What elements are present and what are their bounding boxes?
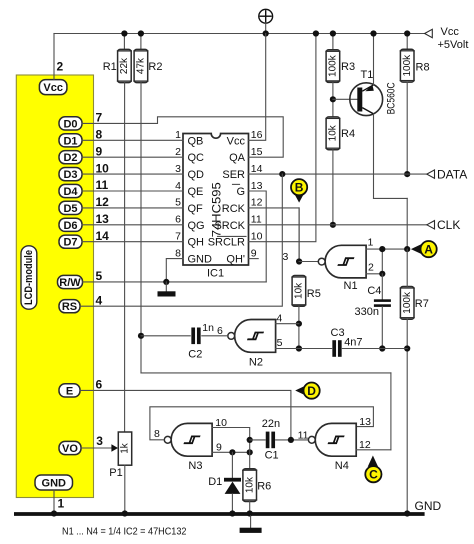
svg-text:3: 3 [282,251,288,263]
wire N2 inputs to C3 [299,348,332,350]
resistor R3 [325,50,340,83]
svg-text:8: 8 [96,128,103,142]
LCD pin VO capsule [59,441,81,455]
wire D1 to IC pin 1 [82,139,183,141]
junction LCD GND to ground rail [51,510,57,516]
N2 pin 6 output wire [202,335,228,337]
wire D7 to IC pin 7 [82,241,183,243]
svg-text:4: 4 [96,293,103,307]
svg-text:QC: QC [188,152,205,164]
wire R1 to P1 top [124,83,126,432]
junction C1 left [247,437,253,443]
wire IC pin 12 RCK to node B [249,208,300,262]
wire D6 to IC pin 6 [82,224,183,226]
svg-text:1: 1 [58,497,65,511]
svg-text:R5: R5 [307,288,321,300]
svg-text:C3: C3 [331,327,345,339]
svg-text:330n: 330n [355,306,379,318]
resistor R5 [291,276,306,307]
svg-text:GND: GND [42,478,67,490]
Vcc supply symbol circle-plus [259,9,273,33]
svg-text:D2: D2 [63,152,77,164]
svg-text:R7: R7 [415,298,429,310]
ground symbol at rail [240,516,262,533]
wire N3 pin9 to R6 [249,452,251,468]
svg-text:16: 16 [251,129,263,141]
wire T1 collector jog [374,197,408,199]
svg-text:5: 5 [96,269,103,283]
svg-text:5: 5 [277,337,283,349]
junction R4/CLK [330,222,336,228]
svg-text:C: C [369,468,378,482]
N3 pin 10 wire [212,428,250,440]
svg-text:12: 12 [359,439,371,451]
svg-text:12: 12 [251,197,263,209]
resistor R4 [325,117,340,150]
svg-text:100k: 100k [328,54,339,77]
LCD pin E capsule [59,384,80,398]
svg-text:N4: N4 [335,460,349,472]
svg-text:14: 14 [96,229,110,243]
svg-text:47k: 47k [136,57,147,74]
LCD pin D0 capsule [59,117,82,131]
junction rail/R8 [404,30,410,36]
svg-text:B: B [295,181,304,195]
svg-text:D1: D1 [63,135,77,147]
DATA terminal arrow [427,170,435,178]
nand gate N4 [308,423,356,456]
svg-text:10: 10 [96,161,110,175]
N1 pin 2 wire [366,273,382,275]
junction rail / supply symbol [263,30,269,36]
wire IC pin 11 SRCK to CLK [249,224,427,226]
svg-text:SRCLR: SRCLR [208,237,245,249]
svg-text:7: 7 [96,111,103,125]
wire N3 pin9 to D1 [231,452,233,478]
VO wiper arrow into P1 [111,444,118,451]
wire rail to R3 [332,34,334,50]
svg-text:7: 7 [175,231,181,243]
svg-text:N1 ... N4 = 1/4 IC2 = 47HC132: N1 ... N4 = 1/4 IC2 = 47HC132 [62,525,187,537]
Vcc +5V power rail [54,33,425,35]
wire C1 left lead [250,439,266,441]
wire T1 collector down [373,114,375,198]
junction R2 line / C2 wire [138,333,144,339]
svg-text:N2: N2 [249,357,263,369]
nand gate N3 [164,423,212,456]
junction R3/R4/T1 base [330,96,336,102]
svg-text:GND: GND [415,499,442,513]
svg-text:11: 11 [298,429,309,441]
junction R7 line / C3 row [404,345,410,351]
svg-text:3: 3 [96,434,103,448]
wire C4 bottom to C3 row [381,307,383,349]
svg-text:11: 11 [251,214,262,226]
wire net C horizontal run [141,372,391,374]
svg-text:6: 6 [217,325,223,337]
LCD pin RS capsule [59,300,80,314]
wire D2 to IC pin 2 [82,156,183,158]
potentiometer P1 [118,432,131,465]
svg-text:R3: R3 [341,61,355,73]
svg-text:D1: D1 [208,476,222,488]
svg-text:R/W: R/W [59,277,81,289]
capacitor C4 [374,299,391,307]
wire IC pin 14 SER to DATA [249,173,427,175]
svg-text:4: 4 [175,180,181,192]
svg-text:8: 8 [154,428,160,440]
svg-text:13: 13 [96,212,110,226]
svg-text:100k: 100k [402,54,413,77]
svg-text:2: 2 [175,146,181,158]
wire C4 top [381,274,383,300]
wire LCD RS row to SER riser [80,174,282,306]
svg-text:2: 2 [368,262,374,274]
IC1 74HC595 body [183,134,249,266]
svg-text:1: 1 [175,129,181,141]
svg-text:8: 8 [175,247,181,259]
junction D1 / ground rail [229,510,235,516]
ground rail [14,512,425,516]
junction N1 pin2 / C4 column [379,271,385,277]
junction N1 pin1 / C4 column [379,246,385,252]
svg-text:1k: 1k [120,442,131,454]
wire T1 base [333,98,358,100]
svg-text:R2: R2 [148,61,162,73]
wire R4 to CLK line [332,150,334,225]
svg-text:2: 2 [57,60,64,74]
wire R6 to ground rail [249,502,251,513]
resistor R7 [400,287,415,320]
svg-text:N1: N1 [344,280,358,292]
svg-text:3: 3 [175,163,181,175]
svg-text:QG: QG [188,220,205,232]
LCD module body [16,75,93,498]
LCD pin GND capsule [35,475,73,490]
junction rail/R1 [121,30,127,36]
svg-text:VO: VO [62,443,78,455]
svg-text:QB: QB [188,135,204,147]
svg-text:6: 6 [96,378,103,392]
capacitor C3 [332,340,341,357]
svg-text:DATA: DATA [437,168,467,182]
LCD pin Vcc wire (pin 2) [53,34,55,80]
wire LCD VO row [81,447,112,449]
wire tying N1 pins 1-2 [381,249,383,274]
wire R8 to DATA line [406,82,408,174]
resistor R1 [117,49,132,82]
svg-text:C4: C4 [367,285,381,297]
svg-text:R4: R4 [341,128,355,140]
wire N1 output [299,261,319,263]
wire IC pin 9 QH' stub [249,258,259,260]
svg-text:CLK: CLK [437,218,460,232]
wire R5 to N2 inputs [298,306,300,348]
wire D4 to IC pin 4 [82,190,183,192]
resistor R6 [242,469,257,502]
svg-text:T1: T1 [361,69,374,81]
capacitor C2 [191,328,200,345]
nand gate N2 [228,320,276,353]
LCD pin GND wire (pin 1) [53,490,55,512]
svg-text:BC560C: BC560C [385,82,397,114]
wire R7 to ground rail [406,319,408,512]
svg-text:Vcc: Vcc [441,26,460,38]
wire net C down to N4 pin 12 [390,373,392,450]
wire C2 left to R2 line [141,335,190,337]
wire rail to R8 [406,34,408,50]
wire collector to node A [406,198,408,249]
LCD pin D6 capsule [59,218,82,232]
junction C4/C3 row [379,345,385,351]
svg-text:12: 12 [96,195,110,209]
capacitor C1 [266,432,275,449]
N1 pin 1 wire [366,248,407,250]
junction pin9 / R6 [247,449,253,455]
svg-text:E: E [66,385,73,397]
transistor T1 BC560C [350,83,383,116]
svg-text:22n: 22n [262,418,280,430]
junction N1 output / R5 [296,258,302,264]
junction R5 line / N2 pin 4 [296,321,302,327]
svg-text:D0: D0 [63,118,77,130]
wire pin10 riser to pin9 row [249,440,251,452]
svg-text:R1: R1 [103,61,117,73]
wire P1 to ground rail [124,465,126,512]
svg-text:13: 13 [359,416,371,428]
N2 pin 5 wire [276,348,299,350]
svg-text:QE: QE [188,186,204,198]
wire D5 to IC pin 5 [82,207,183,209]
N3 pin 9 wire [212,451,250,453]
svg-text:1: 1 [368,237,374,249]
svg-text:SER: SER [222,169,245,181]
svg-text:9: 9 [216,441,222,453]
svg-text:D: D [307,384,316,398]
svg-text:15: 15 [251,146,263,158]
junction R6 / ground rail [247,510,253,516]
LCD pin D3 capsule [59,168,82,182]
Vcc +5Volt terminal arrow [425,29,433,37]
wire node B vertical RCK to N1 output [298,208,300,262]
junction node A [404,246,410,252]
junction rail/SRCLR [313,30,319,36]
N4 pin 12 wire [356,449,391,451]
wire rail to R2 [140,34,142,50]
svg-text:22k: 22k [119,57,130,74]
wire D1 to ground rail [231,494,233,512]
wire C3 to R7 line [342,348,407,350]
diode D1 [224,478,241,494]
svg-text:A: A [424,242,433,256]
svg-text:Vcc: Vcc [227,135,246,147]
resistor R2 [133,49,148,82]
wire C1 right lead to N4 output [276,439,309,441]
svg-text:RCK: RCK [222,203,246,215]
svg-text:R6: R6 [257,480,271,492]
junction P1 / ground rail [122,510,128,516]
svg-text:Vcc: Vcc [43,82,63,94]
wire N3 output to feedback loop [150,407,374,440]
wire IC pin 10 SRCLR to rail [249,34,316,242]
node B marker [291,179,307,203]
svg-text:SRCK: SRCK [214,220,245,232]
svg-text:6: 6 [175,214,181,226]
svg-text:G: G [236,186,245,198]
wire rail to T1 emitter [373,34,375,85]
junction rail/T1 emitter [370,30,376,36]
svg-text:9: 9 [96,144,103,158]
wire IC pin 8 GND [166,259,183,282]
junction rail/R2 [138,30,144,36]
junction rail/R3 [330,30,336,36]
svg-text:10k: 10k [294,282,305,299]
svg-text:QA: QA [229,152,246,164]
svg-text:D3: D3 [63,169,77,181]
svg-text:QD: QD [188,169,205,181]
wire R2 down to corner [140,83,142,373]
svg-text:5: 5 [175,197,181,209]
svg-text:D7: D7 [63,237,77,249]
svg-text:14: 14 [251,163,263,175]
node A marker [411,241,437,257]
junction pin9 / D1 [229,449,235,455]
wire node A to R7 [406,249,408,286]
svg-text:11: 11 [96,178,109,192]
LCD pin Vcc capsule [39,80,67,95]
svg-text:RS: RS [62,301,77,313]
svg-text:IC1: IC1 [207,268,224,280]
LCD pin D5 capsule [59,201,82,215]
svg-text:C1: C1 [265,449,279,461]
svg-text:10k: 10k [244,476,255,493]
junction R/W / ground [163,279,169,285]
wire R3 to R4 [332,82,334,117]
node C marker [365,456,381,483]
wire D3 to IC pin 3 [82,173,183,175]
wire IC pin 13 G to R/W net [249,191,267,282]
junction C1 right / E riser [288,437,294,443]
svg-text:R8: R8 [416,62,430,74]
svg-text:P1: P1 [109,467,122,479]
wire rail to R1 [123,34,125,50]
resistor R8 [400,49,415,82]
wire D0 to QA jog [82,117,283,157]
svg-text:100k: 100k [402,291,413,314]
svg-text:10: 10 [215,417,227,429]
LCD pin D2 capsule [59,151,82,165]
node D marker [295,383,320,399]
svg-text:QH': QH' [226,254,245,266]
svg-text:N3: N3 [188,460,202,472]
nand gate N1 [318,245,366,278]
LCD pin D1 capsule [59,134,82,148]
svg-text:D4: D4 [63,186,78,198]
svg-text:10k: 10k [328,124,339,141]
svg-text:4n7: 4n7 [344,336,362,348]
svg-text:9: 9 [251,247,257,259]
LCD pin D7 capsule [59,235,82,249]
svg-text:4: 4 [276,313,282,325]
IC1 G label overline [233,183,240,185]
svg-text:GND: GND [188,254,213,266]
svg-text:QH: QH [188,237,205,249]
svg-text:C2: C2 [188,349,202,361]
wire LCD E row [80,390,291,440]
wire IC pin 16 Vcc to rail [249,34,266,141]
N2 pin 4 wire [276,323,299,325]
svg-text:LCD-module: LCD-module [23,250,35,305]
wire LCD R/W row [83,281,267,283]
svg-text:D6: D6 [63,220,77,232]
svg-text:QF: QF [188,203,204,215]
LCD pin D4 capsule [59,184,82,198]
svg-text:D5: D5 [63,203,77,215]
svg-text:10: 10 [251,231,263,243]
svg-text:1n: 1n [202,322,214,334]
svg-text:+5Volt: +5Volt [438,39,469,51]
LCD-module label [21,246,37,309]
CLK terminal arrow [427,221,435,229]
junction N2 pin5 / C3 row [296,345,302,351]
junction R8/DATA [404,171,410,177]
IC1 SRCLR label overline [218,235,247,237]
svg-text:13: 13 [251,180,263,192]
junction R7 / ground rail [404,510,410,516]
junction SER/RS riser [279,171,285,177]
ground symbol at IC1 [158,282,176,297]
LCD pin R/W capsule [58,275,83,289]
